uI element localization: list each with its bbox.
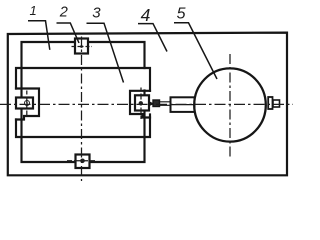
svg-text:5: 5 [177,5,186,22]
svg-text:4: 4 [141,5,151,25]
svg-text:2: 2 [59,5,68,21]
svg-text:1: 1 [30,3,37,18]
svg-text:3: 3 [92,5,101,22]
